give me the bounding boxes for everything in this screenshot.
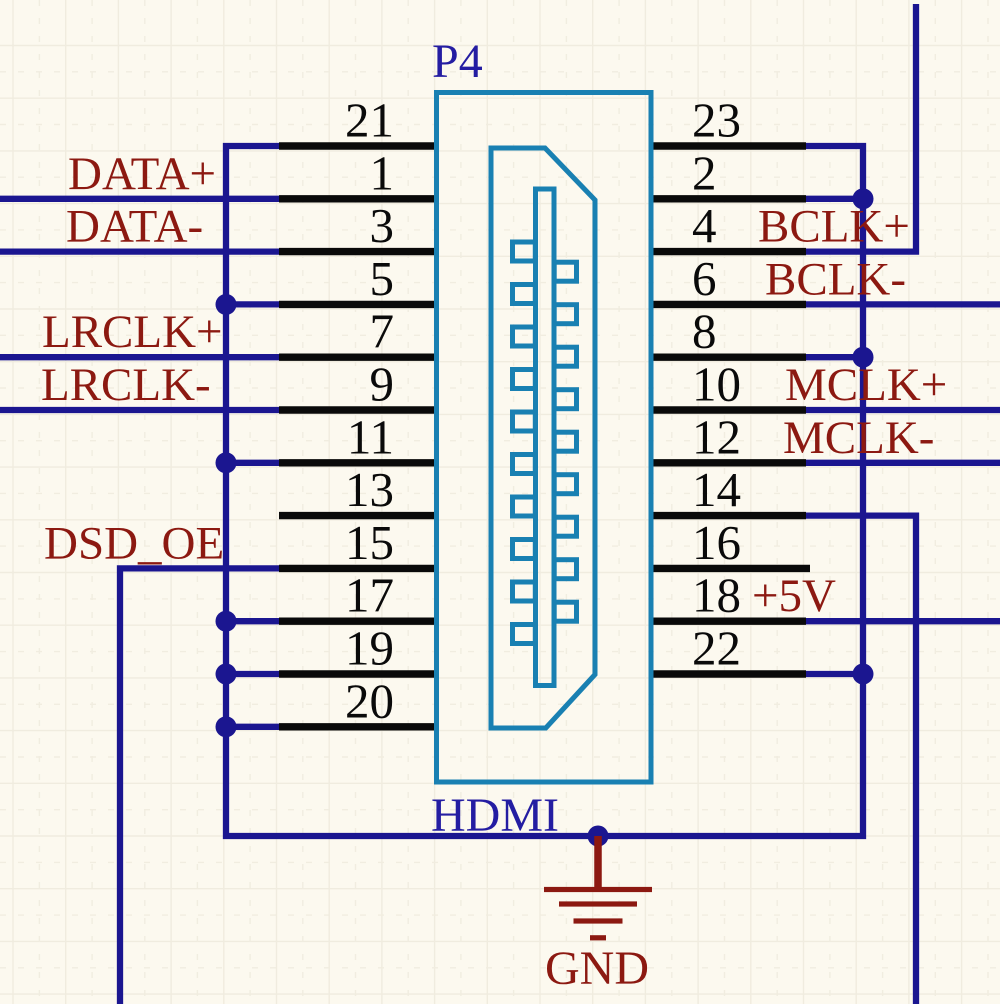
svg-text:+5V: +5V — [752, 570, 836, 622]
svg-text:14: 14 — [692, 462, 741, 517]
svg-text:22: 22 — [692, 621, 741, 676]
svg-text:23: 23 — [692, 93, 741, 148]
svg-text:P4: P4 — [432, 35, 483, 88]
svg-text:GND: GND — [545, 942, 649, 995]
svg-text:3: 3 — [370, 198, 395, 253]
svg-text:21: 21 — [345, 93, 394, 148]
svg-text:6: 6 — [692, 251, 717, 306]
svg-text:13: 13 — [345, 462, 394, 517]
svg-text:5: 5 — [370, 251, 395, 306]
svg-text:BCLK+: BCLK+ — [758, 201, 910, 253]
svg-text:HDMI: HDMI — [431, 789, 559, 842]
svg-text:20: 20 — [345, 673, 394, 728]
svg-text:8: 8 — [692, 304, 717, 359]
svg-text:11: 11 — [347, 409, 394, 464]
svg-text:4: 4 — [692, 198, 717, 253]
svg-text:9: 9 — [370, 357, 395, 412]
svg-text:17: 17 — [345, 568, 394, 623]
svg-text:15: 15 — [345, 515, 394, 570]
svg-text:MCLK+: MCLK+ — [785, 359, 947, 411]
svg-text:1: 1 — [370, 145, 395, 200]
svg-text:16: 16 — [692, 515, 741, 570]
svg-text:DSD_OE: DSD_OE — [44, 517, 224, 569]
svg-text:LRCLK-: LRCLK- — [41, 359, 211, 411]
svg-text:12: 12 — [692, 409, 741, 464]
svg-text:DATA-: DATA- — [66, 201, 203, 253]
svg-text:BCLK-: BCLK- — [765, 253, 906, 305]
svg-text:2: 2 — [692, 145, 717, 200]
svg-text:10: 10 — [692, 357, 741, 412]
svg-text:18: 18 — [692, 568, 741, 623]
svg-text:DATA+: DATA+ — [68, 148, 216, 200]
svg-text:LRCLK+: LRCLK+ — [42, 306, 223, 358]
svg-text:7: 7 — [370, 304, 395, 359]
svg-text:19: 19 — [345, 621, 394, 676]
svg-text:MCLK-: MCLK- — [783, 412, 934, 464]
